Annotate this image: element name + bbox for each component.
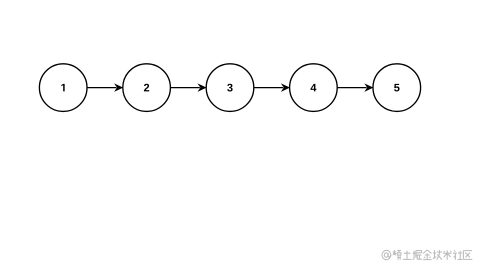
node 5 circle [373, 64, 421, 112]
node 1 circle [39, 64, 87, 112]
node 3 circle [206, 64, 254, 112]
at-sign [382, 250, 391, 259]
wire arrow 2-3 [171, 84, 206, 91]
node 4 label [311, 84, 317, 92]
char jin [423, 250, 432, 260]
char shu [443, 250, 452, 259]
char xi [393, 250, 402, 260]
watermark [382, 250, 472, 260]
node 5 label [394, 84, 399, 92]
node 1 label [61, 84, 64, 92]
wire arrow 4-5 [338, 84, 373, 91]
node 3 label [227, 84, 232, 92]
char ji [433, 250, 442, 260]
char qu [463, 251, 472, 260]
char tu [403, 251, 412, 260]
node 4 circle [290, 64, 338, 112]
char she [453, 250, 462, 259]
node 2 circle [123, 64, 171, 112]
node 2 label [144, 84, 149, 92]
wire arrow 1-2 [87, 84, 122, 91]
char jue [413, 251, 422, 260]
wire arrow 3-4 [254, 84, 289, 91]
